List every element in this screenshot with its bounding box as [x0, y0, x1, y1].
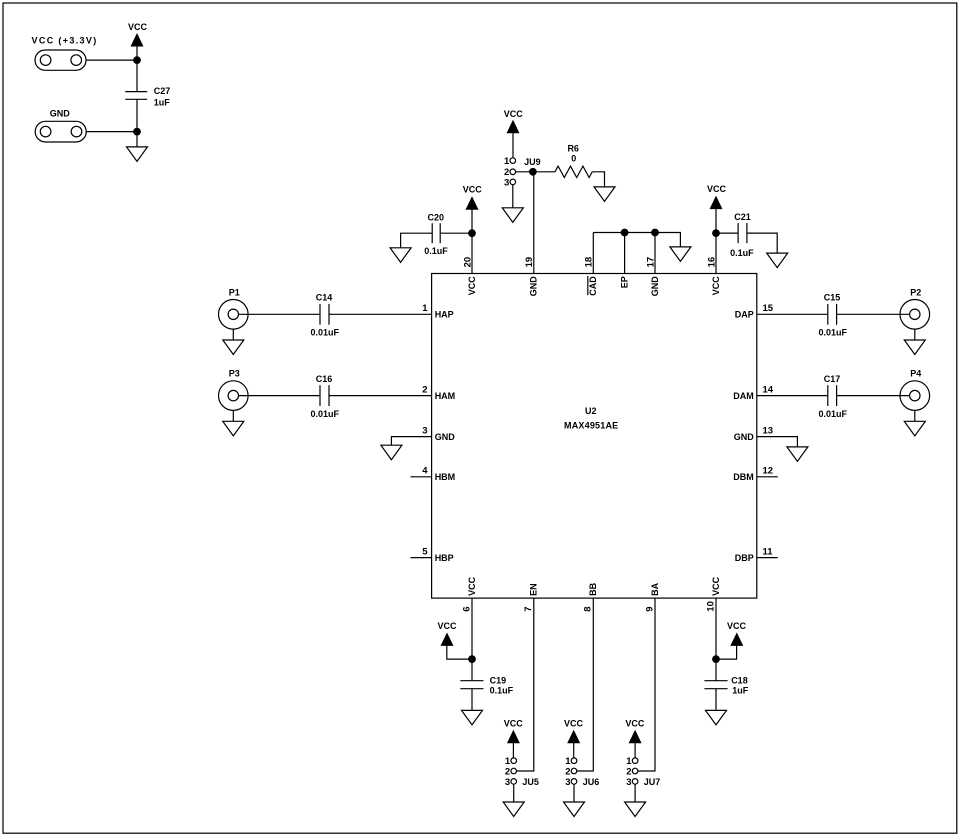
capacitor C14 0.01uF: [310, 293, 339, 338]
power symbol VCC (top-left): [128, 22, 148, 60]
wire pin8 BB down to JU6: [577, 598, 594, 771]
svg-text:16: 16: [706, 257, 717, 268]
ground symbol (JU9 pin3): [502, 185, 523, 223]
wire pin10 VCC down: [715, 598, 717, 681]
wire JU9 pin2 to node: [516, 171, 534, 173]
svg-text:R6: R6: [567, 144, 579, 154]
svg-text:BB: BB: [588, 582, 598, 595]
svg-text:CAD: CAD: [588, 276, 598, 296]
ground symbol (top-left): [127, 132, 148, 162]
power symbol VCC (JU5): [504, 718, 524, 758]
wire C18 to ground: [715, 689, 717, 711]
svg-text:JU7: JU7: [644, 777, 661, 787]
wire pin16 VCC: [715, 233, 717, 273]
power symbol VCC (JU7): [625, 718, 645, 758]
svg-text:GND: GND: [435, 432, 456, 442]
ground symbol (JU7): [625, 784, 646, 816]
svg-text:P2: P2: [910, 287, 921, 297]
svg-text:VCC: VCC: [467, 576, 477, 596]
junction dot pin16/C21: [712, 229, 720, 237]
resistor R6 0: [555, 144, 592, 178]
capacitor C17 0.01uF: [818, 374, 847, 419]
junction dot pin6: [468, 655, 476, 663]
capacitor C20 0.1uF: [424, 212, 448, 256]
svg-text:5: 5: [422, 546, 428, 557]
svg-text:3: 3: [565, 777, 570, 788]
svg-text:2: 2: [422, 384, 427, 395]
wire C14 to pin1: [329, 313, 432, 315]
svg-text:4: 4: [422, 466, 428, 477]
svg-text:HAP: HAP: [435, 310, 454, 320]
svg-text:VCC: VCC: [437, 621, 457, 631]
svg-text:VCC: VCC: [504, 109, 524, 119]
svg-text:VCC (+3.3V): VCC (+3.3V): [32, 36, 98, 46]
svg-text:C27: C27: [154, 86, 171, 96]
svg-text:P1: P1: [229, 287, 240, 297]
svg-text:10: 10: [705, 601, 716, 612]
svg-text:7: 7: [523, 606, 534, 611]
ground symbol (C21): [767, 253, 788, 268]
svg-text:HAM: HAM: [435, 391, 456, 401]
jumper JU5: [505, 756, 539, 788]
junction dot JU9/R6/pin19: [529, 168, 537, 176]
ground symbol (JU5): [503, 784, 524, 816]
wire pin15 to C15: [757, 313, 828, 315]
op IC U2 MAX4951AE body: [432, 274, 757, 599]
power symbol VCC (C20 / pin20): [463, 185, 483, 234]
ground symbol (P4): [904, 410, 925, 435]
svg-text:0.1uF: 0.1uF: [730, 248, 754, 258]
junction dot pin17: [651, 229, 659, 237]
svg-text:3: 3: [626, 777, 631, 788]
wire C15 to P2: [837, 313, 910, 315]
ground symbol (P2): [904, 329, 925, 354]
capacitor C21 0.1uF: [730, 212, 754, 258]
wire C17 to P4: [837, 395, 910, 397]
wire pin EP: [624, 233, 626, 274]
svg-text:C14: C14: [316, 293, 333, 303]
svg-text:MAX4951AE: MAX4951AE: [564, 420, 618, 430]
junction dot pin20/C20: [468, 229, 476, 237]
svg-text:DBP: DBP: [735, 553, 754, 563]
capacitor C18 1uF: [704, 675, 748, 695]
svg-text:0.01uF: 0.01uF: [818, 409, 847, 419]
wire C20 to ground: [401, 233, 433, 248]
junction dot pin10: [712, 655, 720, 663]
capacitor C27 1uF: [125, 86, 170, 108]
power symbol VCC (JU9): [504, 109, 524, 158]
svg-text:19: 19: [524, 257, 535, 268]
svg-text:1: 1: [422, 303, 428, 314]
pin 11 stub: [757, 557, 778, 559]
svg-text:JU9: JU9: [524, 157, 541, 167]
ground symbol (P1): [223, 329, 244, 354]
svg-text:EN: EN: [529, 583, 539, 596]
svg-text:GND: GND: [50, 108, 71, 118]
power symbol VCC (C18): [716, 621, 746, 659]
svg-text:DAP: DAP: [735, 310, 754, 320]
svg-text:12: 12: [763, 466, 774, 477]
ground symbol (pin13): [787, 447, 808, 462]
svg-text:1: 1: [504, 156, 510, 167]
svg-text:2: 2: [505, 766, 510, 777]
svg-text:2: 2: [565, 766, 570, 777]
svg-text:18: 18: [584, 257, 595, 268]
svg-text:0.01uF: 0.01uF: [310, 328, 339, 338]
ground symbol (EP net): [670, 247, 691, 262]
connector J1 VCC (+3.3V) pad: [32, 36, 98, 71]
svg-text:6: 6: [461, 606, 472, 611]
svg-text:GND: GND: [529, 276, 539, 297]
svg-text:VCC: VCC: [128, 22, 148, 32]
svg-text:U2: U2: [585, 406, 597, 416]
wire pin6 VCC down: [471, 598, 473, 681]
wire C21 to ground: [747, 233, 777, 253]
connector J2 GND pad: [35, 108, 86, 142]
svg-text:VCC: VCC: [625, 718, 645, 728]
svg-text:8: 8: [583, 606, 594, 611]
wire pin14 to C17: [757, 395, 828, 397]
svg-text:P4: P4: [910, 369, 921, 379]
svg-text:1uF: 1uF: [732, 686, 749, 696]
svg-text:1uF: 1uF: [154, 97, 171, 107]
svg-text:0.1uF: 0.1uF: [490, 686, 514, 696]
junction dot EP: [621, 229, 629, 237]
wire node VCC to C27: [136, 60, 138, 92]
ground symbol (P3): [223, 410, 244, 435]
ground symbol (C18): [706, 710, 727, 725]
svg-text:3: 3: [505, 777, 510, 788]
svg-text:HBM: HBM: [435, 472, 456, 482]
svg-text:VCC: VCC: [564, 718, 584, 728]
power symbol VCC (C19): [437, 621, 472, 659]
jumper JU6: [565, 756, 599, 788]
svg-text:GND: GND: [734, 432, 755, 442]
svg-text:C20: C20: [428, 212, 445, 222]
pin 5 stub: [411, 557, 432, 559]
jumper JU9: [504, 156, 541, 188]
svg-text:13: 13: [763, 425, 774, 436]
svg-text:3: 3: [422, 425, 427, 436]
ground symbol (R6): [594, 187, 615, 202]
wire pin20 VCC: [471, 233, 473, 273]
svg-text:JU6: JU6: [583, 777, 600, 787]
ground symbol (C20): [390, 248, 411, 262]
pin 12 stub: [757, 476, 778, 478]
power symbol VCC (JU6): [564, 718, 584, 758]
ground symbol (C19): [462, 710, 483, 725]
wire pin3 GND to ground: [391, 437, 431, 446]
svg-text:3: 3: [504, 177, 509, 188]
EP net wire (pins 18/EP/17 to ground): [593, 233, 680, 247]
svg-text:0: 0: [571, 153, 576, 163]
svg-text:EP: EP: [620, 276, 630, 288]
svg-text:VCC: VCC: [467, 276, 477, 296]
wire C27 to node GND: [136, 99, 138, 131]
connector P4: [900, 369, 930, 411]
wire pin18 CAD: [592, 233, 594, 274]
svg-text:0.01uF: 0.01uF: [818, 328, 847, 338]
wire C19 to ground: [471, 689, 473, 711]
connector P2: [900, 287, 930, 329]
svg-text:VCC: VCC: [707, 184, 727, 194]
wire C16 to pin2: [329, 395, 432, 397]
svg-text:14: 14: [763, 384, 774, 395]
svg-text:15: 15: [763, 303, 774, 314]
wire pin9 BA down to JU7: [638, 598, 655, 771]
wire node to R6: [533, 171, 555, 173]
svg-text:BA: BA: [650, 582, 660, 595]
svg-text:VCC: VCC: [727, 621, 747, 631]
wire node to C21: [716, 232, 738, 234]
svg-text:0.1uF: 0.1uF: [424, 246, 448, 256]
node VCC junction dot: [133, 56, 141, 64]
wire pin19 GND: [533, 172, 535, 274]
wire J2 to node GND: [86, 131, 137, 133]
svg-text:DAM: DAM: [733, 391, 754, 401]
svg-text:VCC: VCC: [711, 276, 721, 296]
wire P1 to C14: [239, 313, 321, 315]
svg-text:C17: C17: [824, 374, 841, 384]
svg-text:20: 20: [462, 257, 473, 268]
node GND junction dot: [133, 128, 141, 136]
svg-text:VCC: VCC: [711, 576, 721, 596]
capacitor C19 0.1uF: [460, 675, 513, 695]
wire pin13 GND to ground: [757, 437, 798, 447]
svg-text:GND: GND: [650, 276, 660, 297]
svg-text:17: 17: [645, 257, 656, 268]
svg-text:0.01uF: 0.01uF: [310, 409, 339, 419]
svg-text:C16: C16: [316, 374, 333, 384]
wire P3 to C16: [239, 395, 321, 397]
pin 4 stub: [411, 476, 432, 478]
svg-text:VCC: VCC: [504, 718, 524, 728]
svg-text:2: 2: [626, 766, 631, 777]
svg-text:VCC: VCC: [463, 185, 483, 195]
wire J1 to node VCC: [86, 59, 137, 61]
capacitor C16 0.01uF: [310, 374, 339, 419]
power symbol VCC (C21 / pin16): [707, 184, 727, 233]
wire R6 to ground: [592, 172, 604, 187]
svg-text:C19: C19: [490, 675, 507, 685]
svg-text:HBP: HBP: [435, 553, 454, 563]
svg-text:JU5: JU5: [522, 777, 539, 787]
wire node to C20: [440, 232, 472, 234]
svg-text:DBM: DBM: [733, 472, 754, 482]
svg-text:C15: C15: [824, 293, 841, 303]
ground symbol (pin3): [381, 445, 402, 460]
connector P1: [219, 287, 249, 329]
svg-text:C18: C18: [731, 675, 748, 685]
capacitor C15 0.01uF: [818, 293, 847, 338]
svg-text:11: 11: [763, 546, 774, 557]
svg-text:9: 9: [644, 606, 655, 611]
connector P3: [219, 369, 249, 411]
svg-text:P3: P3: [229, 369, 240, 379]
wire pin7 EN down to JU5: [517, 598, 534, 771]
wire pin17 GND: [654, 233, 656, 274]
ground symbol (JU6): [564, 784, 585, 816]
jumper JU7: [626, 756, 660, 788]
svg-text:C21: C21: [734, 212, 751, 222]
